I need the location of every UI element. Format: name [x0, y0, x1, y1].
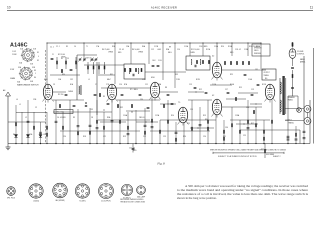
svg-text:R30: R30 [62, 74, 65, 76]
svg-text:R2 25,000: R2 25,000 [58, 54, 65, 56]
svg-text:R3: R3 [66, 46, 68, 48]
svg-text:OHMS: OHMS [190, 52, 195, 54]
svg-text:C30: C30 [246, 107, 249, 109]
svg-text:C15: C15 [187, 123, 190, 125]
svg-text:R15: R15 [239, 87, 242, 89]
svg-text:C12: C12 [151, 49, 154, 51]
svg-text:C23: C23 [163, 136, 166, 138]
svg-text:C10: C10 [119, 84, 122, 86]
svg-text:C5: C5 [67, 58, 69, 60]
svg-text:SHEET 2: SHEET 2 [273, 156, 280, 158]
svg-text:C21: C21 [103, 136, 106, 138]
svg-text:42 (OUTPUT): 42 (OUTPUT) [101, 201, 111, 203]
svg-text:C19: C19 [251, 89, 254, 91]
svg-text:S3: S3 [34, 70, 36, 72]
svg-text:CONTROL: CONTROL [297, 54, 304, 56]
svg-text:S4B: S4B [30, 81, 33, 83]
svg-text:R12B: R12B [196, 79, 200, 81]
svg-text:C7B: C7B [106, 84, 109, 86]
svg-text:C31: C31 [255, 69, 258, 71]
svg-text:1ST I.F.: 1ST I.F. [86, 58, 92, 60]
svg-text:R5: R5 [103, 96, 105, 98]
svg-text:R12: R12 [199, 89, 202, 91]
svg-text:L2: L2 [25, 117, 27, 119]
svg-text:C18 .02: C18 .02 [235, 49, 241, 51]
svg-text:R9: R9 [169, 47, 171, 49]
svg-text:75 (DET.): 75 (DET.) [79, 200, 86, 202]
svg-text:C13: C13 [189, 84, 192, 86]
svg-text:R2: R2 [61, 58, 63, 60]
svg-text:A146C RECEIVER: A146C RECEIVER [151, 5, 177, 9]
svg-text:C32: C32 [70, 79, 73, 81]
svg-text:C2: C2 [35, 107, 37, 109]
svg-text:GRAM: GRAM [10, 77, 16, 80]
svg-text:shown in the long wave positio: shown in the long wave position. [177, 196, 217, 200]
svg-text:C2 .1: C2 .1 [56, 46, 60, 48]
svg-text:L6 (6D6): L6 (6D6) [33, 200, 40, 202]
svg-text:OSC. COIL: OSC. COIL [56, 112, 64, 114]
svg-text:C18B: C18B [244, 49, 248, 51]
svg-text:3 SW: 3 SW [10, 69, 15, 71]
svg-text:2ND I.F.: 2ND I.F. [139, 117, 145, 119]
svg-text:S4: S4 [34, 77, 36, 79]
svg-text:C9 .05: C9 .05 [119, 49, 124, 51]
svg-text:C6: C6 [74, 46, 76, 48]
svg-text:C25: C25 [243, 135, 246, 137]
svg-text:VOLUME: VOLUME [297, 51, 303, 53]
svg-text:R3: R3 [73, 117, 75, 119]
svg-text:C14: C14 [177, 49, 180, 51]
svg-text:R5B: R5B [112, 46, 115, 48]
svg-text:Fig. 8: Fig. 8 [156, 162, 165, 166]
svg-text:L4: L4 [16, 99, 18, 101]
svg-text:.0001: .0001 [157, 49, 161, 51]
svg-text:C33: C33 [90, 109, 93, 111]
svg-text:R6 50,000: R6 50,000 [132, 49, 140, 51]
svg-text:L5: L5 [88, 79, 90, 81]
svg-text:L3: L3 [43, 134, 45, 136]
svg-text:1 LW: 1 LW [12, 51, 16, 53]
svg-text:R33: R33 [175, 74, 178, 76]
svg-text:R34: R34 [205, 119, 208, 121]
svg-text:C36: C36 [225, 127, 228, 129]
svg-text:WINDING: WINDING [254, 53, 262, 55]
svg-text:C12B: C12B [154, 46, 158, 48]
svg-text:SPK. PLUG: SPK. PLUG [7, 197, 16, 199]
svg-text:SUBJECT TO ALTERATION WITHOUT: SUBJECT TO ALTERATION WITHOUT NOTICE [218, 155, 257, 158]
svg-text:R4 25,000: R4 25,000 [102, 49, 110, 51]
svg-text:C7: C7 [95, 84, 97, 86]
svg-text:R11 10,000: R11 10,000 [191, 49, 199, 51]
svg-text:C20: C20 [63, 136, 66, 138]
svg-text:R10: R10 [171, 115, 174, 117]
svg-text:WAVECHANGE SWITCH: WAVECHANGE SWITCH [17, 84, 39, 87]
svg-text:C17: C17 [225, 89, 228, 91]
svg-text:OSC.: OSC. [152, 60, 157, 62]
svg-text:S2: S2 [37, 60, 39, 62]
svg-text:C24: C24 [203, 136, 206, 138]
svg-text:S3B: S3B [32, 67, 35, 69]
svg-text:S2B: S2B [30, 64, 33, 66]
svg-text:R25: R25 [230, 74, 233, 76]
svg-text:C11: C11 [145, 84, 148, 86]
svg-text:COIL: COIL [158, 60, 162, 62]
svg-text:C13B: C13B [176, 79, 180, 81]
svg-text:R31: R31 [110, 74, 113, 76]
svg-text:C22: C22 [143, 136, 146, 138]
svg-text:R13: R13 [203, 115, 206, 117]
svg-text:R18: R18 [83, 136, 86, 138]
svg-text:C4 .05 MFD: C4 .05 MFD [57, 117, 67, 119]
svg-text:2 MW: 2 MW [12, 54, 17, 56]
svg-text:T1: T1 [86, 46, 88, 48]
svg-text:R32: R32 [120, 107, 123, 109]
svg-text:C8: C8 [91, 117, 93, 119]
svg-text:S1: S1 [37, 52, 39, 54]
svg-text:OUTPUT: OUTPUT [285, 120, 292, 122]
svg-text:11: 11 [310, 6, 314, 10]
svg-text:C3: C3 [53, 84, 55, 86]
svg-text:R1 350: R1 350 [58, 94, 63, 96]
svg-text:C35: C35 [190, 109, 193, 111]
svg-text:175 KC: 175 KC [90, 60, 96, 62]
svg-text:R19: R19 [123, 136, 126, 138]
svg-text:R14: R14 [221, 46, 224, 48]
svg-text:A146C: A146C [10, 43, 28, 49]
svg-text:R8: R8 [165, 87, 167, 89]
svg-text:C2B: C2B [33, 99, 36, 101]
svg-text:S1B: S1B [33, 49, 36, 51]
svg-text:OUTPUT: OUTPUT [264, 72, 270, 74]
svg-text:10: 10 [7, 6, 11, 10]
svg-text:C1: C1 [52, 54, 54, 56]
svg-text:C34: C34 [140, 99, 143, 101]
svg-text:R7 2 MEG: R7 2 MEG [130, 89, 138, 91]
svg-text:L1: L1 [19, 104, 21, 106]
svg-text:R20: R20 [183, 136, 186, 138]
svg-text:C16 8 MFD: C16 8 MFD [199, 46, 208, 48]
svg-text:C1 .1: C1 .1 [50, 47, 54, 49]
svg-text:R21: R21 [223, 136, 226, 138]
